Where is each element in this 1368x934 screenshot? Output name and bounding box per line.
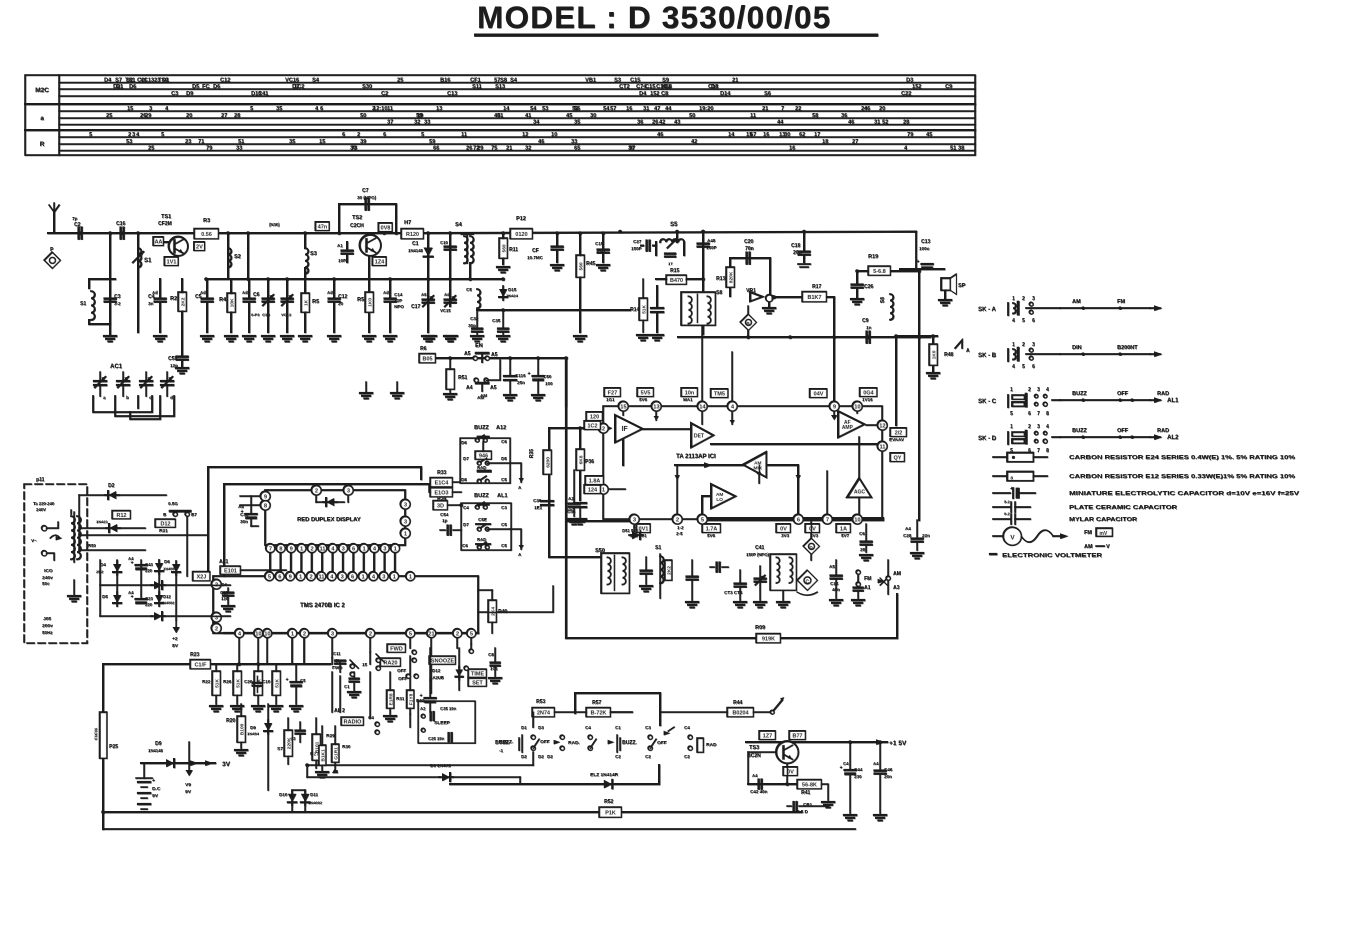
wire VR1 out [774,296,804,298]
resistor row R22-R26 [212,671,220,695]
wire FM det bus [678,336,930,338]
wire x208 vertical [207,467,209,576]
wire buzz left [429,484,430,492]
wire x677 S5 drop [676,232,678,243]
resistor R17 [802,292,826,302]
amp AGC [847,478,871,497]
display pins bottom [266,544,275,553]
wire sw mid [532,752,534,765]
wire P1K line [103,811,801,813]
wire B7 down [186,516,188,576]
value pin5 [702,524,720,533]
wire mid drops [409,714,411,727]
wire pin12 link [866,424,877,426]
amp IF [615,415,642,442]
wire x110 drop [109,234,111,279]
wire C42 line [748,783,818,785]
amp AF [838,411,864,437]
capacitor C5 [202,297,213,299]
bridge C48 [136,598,147,600]
wire output top [896,335,937,337]
capacitor C50 [533,375,544,377]
wire display top b [224,483,429,485]
jack AM A3 [880,578,887,585]
capacitor C10 [445,245,456,247]
wire C20 link [730,258,770,294]
value pin6 [776,524,790,533]
capacitor C55 [177,355,188,357]
diode D11 [301,794,309,802]
resistor R48 [929,344,937,365]
resistor R45 [576,255,584,277]
switch TIMESET [468,669,486,677]
bridge C47 [136,564,147,566]
resistor R21 [155,519,175,527]
IC1 pin9 [829,401,839,411]
IC1 pin4t [727,401,737,411]
resistor R25 [100,712,107,758]
wire x933 R48 [932,336,934,344]
wire pin3 left [566,520,629,522]
wire S4 bottom [469,263,471,279]
capacitor C42 [757,780,759,789]
capacitor C62 [425,697,436,699]
diamond node D [803,538,819,554]
diode D51 [632,531,640,539]
junction dots rail [78,231,82,235]
wire bridge verts [99,560,101,616]
resistor R29 [312,734,320,760]
diode D21 [109,524,117,532]
display pins left [260,491,270,501]
wire x566 upper [565,358,567,406]
wire IC2 right [478,586,553,612]
wire R23 row [103,663,330,665]
wire S50 bus [549,556,601,558]
wire R6 bus [435,357,566,359]
wire switch block top [575,693,660,725]
wire AMLO up [758,465,760,483]
wire ELZ line [450,783,659,785]
switch block BUZZ AL1 [461,503,511,550]
wire main top rail [48,232,402,234]
component legend [993,456,1007,458]
resistor R28 [334,744,336,746]
varcap C17 [423,298,434,300]
IC2 box [213,576,478,633]
wire x224 vertical [223,484,225,576]
coil S2 [228,248,231,267]
wire IF-DET [642,428,690,430]
resistor R4 [227,293,235,312]
bridge D7 [172,564,180,572]
IC1 pin11 [877,441,887,451]
diode D9b [264,723,272,731]
wire pin471 drop [470,644,472,648]
wire x703 vertical [702,232,704,335]
wire x914 speaker [900,268,944,270]
IC1 pin15 [618,401,628,411]
diode D13 [154,581,162,589]
amp AM MIX [743,452,766,477]
wire AGC line [477,309,630,311]
capacitor C4 [155,297,166,299]
IC1 pin12 [877,420,887,430]
resistor R5v [301,293,309,312]
wire x228 drop [227,234,229,279]
IC1 pin3 [629,514,639,524]
wire IC1 pin2 feed [560,427,603,429]
wire pin304 drop [303,638,305,664]
IC1 pin1 [598,484,608,494]
switch arrow [772,700,782,712]
wire bottom rail [103,828,855,830]
value QY box [890,453,904,462]
wire display top a [208,467,421,479]
jack A4 [476,382,488,385]
wire x428 drop [427,235,429,332]
value 1V1 [164,257,178,266]
wire x580 vertical [579,428,581,500]
capacitor C61 [350,677,359,679]
wire x834 drop [833,297,835,401]
capacitor C12 [329,297,340,299]
amp AM LO [711,484,735,508]
wire pin7 up [826,471,828,514]
IC1 bus thick [702,517,882,521]
coil C1 tank [91,291,95,320]
resistor R13 [726,267,734,287]
switch SNOOZE [429,656,455,664]
capacitor C46 [875,769,886,771]
IC2 pins bottom [224,632,478,634]
wire TS2 emitter [368,255,370,292]
wire ic2 stub3 [291,638,293,664]
wire x677 inner [676,465,678,514]
wire ic2 stub2 [257,638,259,664]
IC1 pin6 [793,514,803,524]
resistor R2 [178,292,186,311]
capacitor big [651,307,663,309]
diode D1 [424,248,433,257]
resistor R34 [430,488,452,497]
capacitor C63 [296,729,305,731]
wire x248 drop [247,234,249,279]
resistor R41 [797,780,821,789]
display box [265,490,405,545]
coil S8b [890,294,893,320]
wire x920 down [918,337,920,520]
varcap VC13 [282,297,293,299]
grounds tuning [686,601,698,603]
resistor R51 [446,369,454,389]
coil S52 [770,554,796,590]
value 12V box [890,428,906,437]
grounds row2 [424,335,436,337]
antenna [49,205,59,212]
connector pin table [25,75,975,155]
wire sw top2 [610,711,632,713]
resistor R24 [112,511,130,519]
ground C1 tank [109,324,111,334]
coil S3 [305,248,308,274]
arrow 9V [188,742,190,770]
resistor R11 [499,238,507,258]
wire R19 link [857,270,870,272]
switch RADIO [380,658,400,666]
jack FM A1 [856,570,860,574]
wire sw top [554,711,586,713]
ground R45 [574,335,586,337]
capacitor A1 10P [342,249,353,251]
wire D9 line [141,762,215,764]
wire ic2 stub5 [430,638,432,693]
battery BT1 [136,777,152,779]
wire x804 stub [803,232,805,249]
wire x208 thick [207,467,209,549]
wire x623 IF drop [622,439,624,465]
display pins top [311,485,321,495]
wire AMLO left [702,496,710,514]
wire ic2 stub4 [331,638,333,658]
wire AF-AGC [858,437,860,478]
IC1 pin2 [598,423,608,433]
diode D10 [288,794,296,802]
IC2 pins left [211,579,221,589]
value 0V1 [636,524,650,533]
wire ic2 stub1 [238,638,240,664]
IC1 pin2b [672,514,682,524]
tuning caps [687,575,698,577]
resistor R36b [579,448,581,450]
transformer box dashed [24,484,87,643]
box SLEEP [418,701,475,743]
wire x896 up [895,336,897,425]
wire DET to pin11 [711,443,882,445]
diode D14 [154,612,162,620]
capacitor C2 [77,228,79,239]
wire AM MIX feed [675,464,743,466]
plug symbol [42,526,47,531]
capacitor C36 [574,502,586,504]
coil S5 var [660,239,684,242]
resistor R27 [319,745,326,765]
wire TS3 rail [746,741,887,743]
capacitor C44 [845,769,856,771]
wire R09 line [566,594,897,638]
phone jack J1 [44,252,60,268]
resistor R40 [488,600,496,622]
resistor R5 [365,292,373,312]
wire left drop [102,664,104,829]
wire x857 cap [856,271,858,283]
coil S51 [660,556,663,583]
display pins right [400,499,410,509]
wire x547 vertical [548,428,550,557]
switch block BUZZ A12 [460,438,510,483]
ground TS2 [363,335,375,337]
resistor R14 [639,298,647,320]
resistor R30 [332,744,339,762]
diode D15 [499,289,507,297]
wire x566 vertical [565,358,567,638]
IC1 pin10 [852,401,862,411]
bridge D6 [155,563,163,571]
wire antenna drop [53,212,55,233]
wire C1 tank top [89,278,115,280]
value pin10 [836,524,850,533]
coil S1 (var) [138,248,141,267]
bridge D5 [113,595,121,603]
wire ps low [79,549,145,551]
varcap VC1 [263,297,274,299]
wire AMMIX right [767,465,798,514]
diamond node C [797,570,817,590]
capacitor C40 [641,569,652,571]
switch FWD [387,644,405,652]
capacitor C6 [244,297,255,299]
coil S5b [477,289,480,308]
wire ps mid [79,534,208,536]
wire pin292 drop [291,638,293,664]
wire snooze drop [369,652,371,664]
resistor R20 [237,716,245,742]
capacitor C15 [598,248,609,250]
jack A7 [955,340,962,348]
arrow +2 8V [175,620,177,628]
capacitor C64 [253,681,262,683]
resistor R36i [576,449,584,470]
value pin6b [805,524,819,533]
bridge D12 [155,595,163,603]
value 47n [315,222,329,231]
wire D10D11 [291,790,293,793]
resistor R32 [407,690,414,708]
IF can S6 [681,292,715,325]
bridge D4 [113,564,121,572]
capacitor C16 [119,228,121,239]
value X2J [193,572,210,581]
capacitor C116 [504,375,516,377]
amp DET [691,423,713,447]
capacitor C26 [852,283,863,285]
IC2 pins top [265,572,274,581]
wire RF second bus [206,278,503,280]
wire x138 drop [137,234,139,332]
resistor S7 [284,730,292,756]
wire x730 R13 [729,258,731,296]
varcap VC15 [445,298,456,300]
IC1 pin13 [651,401,661,411]
diamond node B [740,314,756,330]
wire TS3 base [748,751,776,753]
capacitor C14 22P [385,297,396,299]
capacitor C27 150P [645,241,647,251]
IC1 top labels [604,388,620,397]
resistor R35 [543,450,551,474]
capacitor C3 [105,297,116,299]
wire x450 drop [449,235,451,306]
resistor R31 [387,690,394,708]
IC1 pin14 [697,401,707,411]
wire C7 bypass [339,204,396,233]
capacitor C28 150P [702,238,704,242]
IC1 box [603,406,882,519]
wire al2 link [331,658,333,664]
transformer T1 [71,516,75,559]
arrow junction [771,294,779,300]
IC1 pin10b [852,514,862,524]
IC1 pin7 [822,514,832,524]
speaker SP [941,278,950,290]
capacitor C30 [541,500,553,502]
capacitor C59 [291,681,302,683]
IC1 pin5 [697,514,707,524]
box 3D [433,501,447,510]
ground transformer [73,580,75,594]
